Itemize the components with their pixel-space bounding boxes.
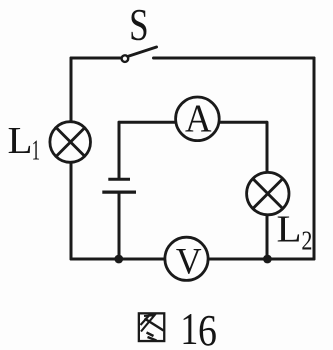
wire bottom xyxy=(71,258,314,261)
wire right side xyxy=(313,58,316,259)
ammeter A xyxy=(176,97,220,141)
label L1 xyxy=(8,119,41,165)
wire inner top xyxy=(119,121,267,124)
svg-text:1: 1 xyxy=(32,134,40,166)
battery B xyxy=(102,179,136,192)
svg-text:6: 6 xyxy=(198,305,217,350)
junction node (battery-bottom) xyxy=(114,255,123,264)
svg-text:1: 1 xyxy=(180,303,198,350)
wire left side xyxy=(70,58,73,259)
voltmeter V xyxy=(165,237,208,282)
switch S xyxy=(122,47,157,62)
wire inner right branch xyxy=(266,122,269,259)
caption character 图 xyxy=(139,313,164,341)
junction node (L2-bottom) xyxy=(263,255,272,264)
svg-text:L: L xyxy=(277,208,302,250)
svg-text:S: S xyxy=(129,0,149,50)
lamp L2 xyxy=(247,172,289,214)
svg-text:2: 2 xyxy=(301,227,312,257)
lamp L1 xyxy=(50,122,91,163)
wire battery bottom lead xyxy=(118,192,121,259)
wire top-left segment xyxy=(71,57,122,60)
wire top-right segment xyxy=(154,57,315,60)
svg-text:V: V xyxy=(176,240,202,282)
label L2 xyxy=(277,208,313,256)
svg-text:L: L xyxy=(8,119,33,161)
caption 16 xyxy=(180,303,217,350)
wire battery top lead xyxy=(118,122,121,179)
svg-text:A: A xyxy=(185,97,212,140)
